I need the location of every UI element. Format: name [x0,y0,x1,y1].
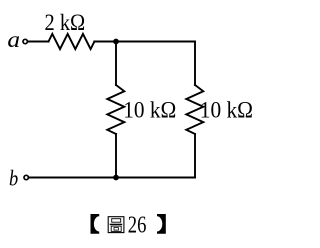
resistor R1 2 kΩ zigzag [49,34,95,49]
terminal b [24,175,28,179]
wire R1 to top-right corner [94,41,195,43]
svg-text:10 kΩ: 10 kΩ [200,97,253,122]
svg-text:b: b [9,166,18,191]
svg-text:2 kΩ: 2 kΩ [45,10,86,35]
圖 middle bar [110,223,123,225]
svg-text:10 kΩ: 10 kΩ [123,97,176,122]
svg-text:26: 26 [128,212,147,239]
svg-text:a: a [7,27,20,52]
resistor R3 right 10 kΩ zigzag [186,85,203,134]
caption character 圖 outer box [108,217,124,233]
圖 bottom inner box [114,228,118,231]
node junction bottom [113,175,119,181]
wire right branch top [194,42,196,86]
caption closing bracket 】 [157,214,166,234]
wire a to R1 [28,41,48,43]
wire left branch bottom [115,134,117,178]
caption opening bracket 【 [91,214,100,234]
resistor R2 left 10 kΩ zigzag [107,85,124,134]
node junction top [113,39,119,45]
wire left branch top [115,42,117,86]
wire bottom b to right corner [29,177,195,179]
圖 bottom outer box [111,226,121,231]
wire right branch bottom [194,134,196,178]
terminal a [23,39,27,43]
圖 top inner box [112,219,121,223]
